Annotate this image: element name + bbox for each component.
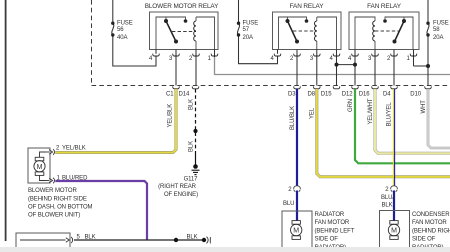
svg-text:56: 56 (117, 27, 124, 33)
svg-text:YEL/BLK: YEL/BLK (62, 146, 86, 152)
connector D15 cradle (333, 86, 340, 88)
bottom BLK wire (74, 239, 206, 241)
condenser fan motor box (380, 211, 410, 251)
svg-text:GRN: GRN (348, 99, 354, 112)
junction dot bottom 1 (174, 238, 178, 242)
svg-text:FUSE: FUSE (243, 21, 259, 27)
blower relay pin stubs (156, 50, 215, 86)
inline connector 2 condenser (391, 186, 398, 189)
connector D10 cradle (425, 86, 432, 88)
condenser fan motor symbol (390, 221, 398, 225)
fan relay 1 pin cradles (274, 54, 340, 56)
svg-text:WHT: WHT (421, 100, 427, 114)
blower relay pin cradles (153, 54, 218, 56)
fan relay 1 interior (279, 17, 337, 50)
svg-text:57: 57 (243, 27, 250, 33)
svg-text:BLK: BLK (382, 202, 393, 208)
wire BLU/YEL D4 down (twin stripe) (392, 89, 394, 186)
bottom end connector (207, 237, 209, 244)
svg-text:BLU/: BLU/ (381, 195, 394, 201)
svg-text:D8: D8 (308, 92, 316, 98)
dashed boundary horizontal (92, 85, 450, 87)
fan relay 1 switch arm (288, 21, 298, 42)
svg-text:20A: 20A (243, 35, 253, 41)
junction dot bottom 2 (202, 238, 206, 242)
radiator fan motor box (282, 211, 312, 250)
blower motor box (28, 148, 50, 183)
svg-text:FAN MOTOR: FAN MOTOR (412, 220, 447, 226)
fan relay 2 coil (373, 21, 375, 41)
svg-text:M: M (37, 164, 43, 171)
svg-text:BLOWER MOTOR RELAY: BLOWER MOTOR RELAY (145, 3, 219, 10)
svg-text:D3: D3 (288, 92, 296, 98)
svg-text:BLK: BLK (188, 99, 194, 110)
svg-text:BLU/YEL: BLU/YEL (387, 102, 393, 127)
blower relay actuate dashed link (172, 31, 196, 33)
wire WHT from blower relay pin 1 to right edge (215, 57, 450, 75)
svg-text:FUSE: FUSE (433, 21, 449, 27)
connector D3 cradle (294, 86, 301, 88)
ground G117 (193, 164, 198, 169)
svg-text:G117: G117 (184, 177, 199, 183)
bottom box arrow (20, 239, 66, 241)
svg-text:OF ENGINE): OF ENGINE) (164, 192, 198, 198)
svg-text:OF BLOWER UNIT): OF BLOWER UNIT) (28, 213, 80, 219)
junction dot fuse58 node (426, 64, 430, 68)
fan relay 1 actuate dashed link (293, 30, 317, 32)
svg-text:M: M (391, 228, 397, 235)
svg-text:YEL: YEL (310, 107, 316, 119)
inline connector 2 radiator (294, 186, 301, 189)
blower relay coil (194, 21, 196, 41)
svg-text:OF DASH, ON BOTTOM: OF DASH, ON BOTTOM (28, 205, 93, 211)
wire BLU/BLK D3 down (296, 89, 298, 186)
svg-text:40A: 40A (117, 35, 127, 41)
junction dot fan2 pin4 (353, 63, 357, 67)
wire YEL/BLK C1 to blower motor (55, 89, 176, 153)
svg-text:20A: 20A (433, 35, 443, 41)
fuse 57 dots (237, 22, 240, 25)
svg-text:58: 58 (433, 27, 440, 33)
svg-text:FAN RELAY: FAN RELAY (367, 3, 402, 10)
svg-text:D10: D10 (410, 92, 421, 98)
fan relay 2 actuate dashed link (375, 30, 399, 32)
radiator fan motor symbol (292, 221, 300, 225)
wire GRN D12 to right (355, 89, 450, 163)
bottom connector box (16, 233, 70, 252)
svg-text:CONDENSER: CONDENSER (412, 212, 450, 218)
fuse 57 wire (237, 0, 277, 64)
fuse 58 wire (427, 0, 429, 86)
blower motor pin 1 connector (46, 180, 49, 182)
wire WHT D10 to right (428, 89, 450, 148)
blower motor symbol (35, 157, 44, 161)
svg-text:D4: D4 (383, 92, 391, 98)
wire BLU to radiator motor (296, 191, 298, 221)
svg-text:D15: D15 (321, 92, 332, 98)
svg-text:BLOWER MOTOR: BLOWER MOTOR (28, 188, 77, 194)
svg-text:C1: C1 (166, 92, 174, 98)
fan relay 1 pin stubs (278, 50, 337, 86)
svg-text:YEL/WHT: YEL/WHT (368, 98, 374, 124)
connector D16 cradle (372, 86, 379, 88)
blower relay interior (156, 17, 215, 50)
svg-text:(BEHIND RIGHT: (BEHIND RIGHT (412, 228, 450, 234)
connector D14 cradle (192, 86, 199, 88)
connector D4 cradle (391, 86, 398, 88)
wire BLK D14 dashed to ground (195, 89, 197, 154)
svg-text:RADIATOR: RADIATOR (315, 212, 345, 218)
svg-text:YEL/BLK: YEL/BLK (168, 104, 174, 128)
blower motor internal wires (40, 152, 47, 157)
wire fan2 pin1 to fuse58 node (414, 65, 429, 67)
connector C1 cradle (173, 86, 180, 88)
dashed boundary vertical (91, 0, 93, 86)
svg-text:FUSE: FUSE (117, 21, 133, 27)
blower motor relay box (150, 12, 219, 50)
svg-text:BLU: BLU (283, 201, 294, 207)
fan relay 1 coil (315, 21, 317, 41)
wire YEL D8 to right (317, 89, 450, 177)
fan relay 2 interior (355, 17, 413, 50)
svg-text:M: M (293, 228, 299, 235)
blower relay switch arm (166, 21, 176, 42)
svg-text:BLU/BLK: BLU/BLK (290, 106, 296, 130)
junction dot BLK splice (193, 129, 197, 133)
svg-text:SIDE OF: SIDE OF (412, 237, 436, 243)
svg-text:(BEHIND RIGHT SIDE: (BEHIND RIGHT SIDE (28, 197, 87, 203)
wire BLU/BLK to condenser motor (393, 191, 395, 221)
svg-text:D16: D16 (359, 92, 370, 98)
svg-text:SIDE OF: SIDE OF (315, 237, 339, 243)
left page border line (5, 0, 7, 241)
svg-text:FAN RELAY: FAN RELAY (290, 3, 325, 10)
svg-text:(BEHIND LEFT: (BEHIND LEFT (315, 228, 355, 234)
svg-text:D14: D14 (179, 92, 190, 98)
junction dot fan1 pin4 (335, 63, 339, 67)
bottom scan bar (0, 247, 450, 252)
wire bridge fan1 pin4 to fan2 pin4 (337, 64, 356, 66)
blower motor pin 2 connector (46, 151, 49, 153)
svg-text:BLK: BLK (85, 235, 96, 241)
fan relay 2 pin stubs (355, 50, 414, 86)
fan relay 2 pin cradles (352, 54, 417, 56)
wire BLU/RED blower motor to bottom (55, 181, 147, 240)
fan relay 2 switch arm (395, 21, 405, 42)
fan relay 2 box (349, 12, 419, 50)
fuse 56 dots (111, 22, 114, 25)
connector D8 cradle (314, 86, 321, 88)
fuse 56 wire (112, 0, 156, 66)
svg-text:BLK: BLK (188, 141, 194, 152)
svg-text:D12: D12 (342, 92, 353, 98)
svg-text:BLK: BLK (187, 235, 198, 241)
connector D12 cradle (352, 86, 359, 88)
svg-text:FAN MOTOR: FAN MOTOR (315, 220, 350, 226)
svg-text:(RIGHT REAR: (RIGHT REAR (158, 184, 197, 190)
wire YEL/WHT D16 to right (375, 89, 450, 153)
fan relay 1 box (273, 12, 342, 50)
fuse 58 dots (426, 22, 429, 25)
